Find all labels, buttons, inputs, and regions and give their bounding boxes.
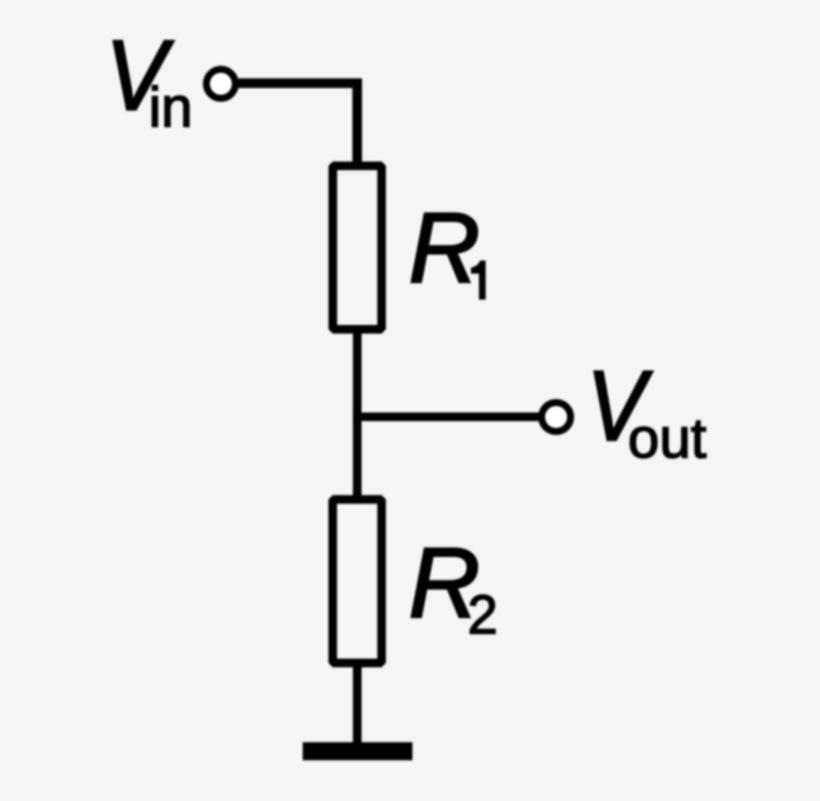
svg-text:out: out (628, 407, 707, 470)
svg-text:2: 2 (468, 585, 498, 646)
svg-text:in: in (149, 76, 193, 139)
svg-text:R: R (409, 192, 481, 303)
